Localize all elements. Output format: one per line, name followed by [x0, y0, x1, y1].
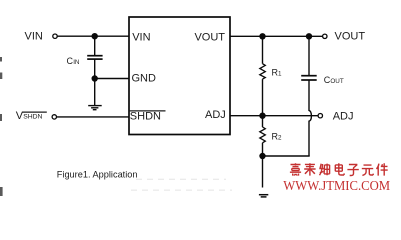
svg-text:WWW.JTMIC.COM: WWW.JTMIC.COM	[283, 178, 390, 193]
wire VOUT rail	[230, 35, 322, 37]
svg-text:SHDN: SHDN	[130, 111, 161, 123]
svg-text:IN: IN	[73, 59, 80, 66]
wire R1 bottom to ADJ rail	[262, 79, 264, 116]
wire ADJ rail	[230, 115, 318, 117]
junction dot VOUT/R1	[259, 33, 265, 39]
capacitor COUT	[301, 76, 317, 80]
terminal circle VOUT	[323, 34, 327, 38]
wire CIN bottom plate down to ground	[94, 59, 96, 105]
junction dot VIN/CIN	[92, 33, 98, 39]
svg-text:ADJ: ADJ	[333, 111, 354, 123]
junction dot VOUT/COUT	[306, 33, 312, 39]
svg-text:GND: GND	[132, 73, 157, 85]
svg-text:2: 2	[278, 134, 282, 141]
ground symbol bottom	[259, 195, 268, 197]
node VSHDN input label	[16, 110, 43, 122]
ground symbol under CIN	[88, 106, 102, 110]
svg-text:1: 1	[278, 70, 282, 77]
capacitor CIN	[87, 56, 102, 59]
svg-text:VIN: VIN	[25, 31, 43, 43]
terminal circle ADJ	[318, 114, 322, 118]
wire VOUT down to R1	[262, 36, 264, 63]
svg-text:VIN: VIN	[132, 31, 150, 43]
scan artifact left edge marks	[0, 57, 3, 196]
svg-text:OUT: OUT	[330, 78, 343, 85]
terminal circle VSHDN	[52, 115, 56, 119]
resistor R2	[260, 127, 266, 143]
wire ADJ junction down to R2	[262, 116, 264, 127]
value label R2	[272, 131, 283, 141]
value label COUT	[324, 75, 344, 85]
op-amp U1 regulator body box	[129, 17, 230, 135]
terminal circle VIN	[53, 34, 57, 38]
wire VOUT down to COUT top plate	[308, 36, 310, 75]
overline on VSHDN label	[22, 111, 47, 113]
watermark chinese characters	[290, 163, 388, 175]
svg-text:Figure1. Application: Figure1. Application	[57, 170, 138, 180]
wire SHDN rail to IC	[57, 116, 130, 118]
junction dot ADJ/R1/R2	[259, 113, 265, 119]
svg-text:ADJ: ADJ	[205, 109, 226, 121]
wire bottom node down to ground	[262, 156, 264, 188]
value label CIN	[67, 56, 80, 66]
wire COUT bottom with hop over ADJ rail down to bottom node	[309, 80, 311, 156]
wire GND pin	[95, 78, 130, 80]
value label R1	[272, 67, 283, 77]
svg-text:VOUT: VOUT	[335, 31, 366, 43]
wire bottom node horizontal to COUT branch	[263, 155, 310, 157]
svg-text:SHDN: SHDN	[23, 114, 42, 121]
wire VIN junction down to CIN top plate	[94, 36, 96, 55]
junction dot CIN/GND wire	[92, 75, 98, 81]
overline on SHDN pin label	[130, 110, 166, 112]
wire R2 bottom to bottom node	[262, 143, 264, 156]
svg-text:VOUT: VOUT	[194, 32, 225, 44]
scan artifact faint streaks under caption	[131, 179, 232, 190]
resistor R1	[260, 64, 266, 79]
junction dot R2/COUT bottom node	[259, 153, 265, 159]
wire VIN rail to IC	[57, 35, 129, 37]
